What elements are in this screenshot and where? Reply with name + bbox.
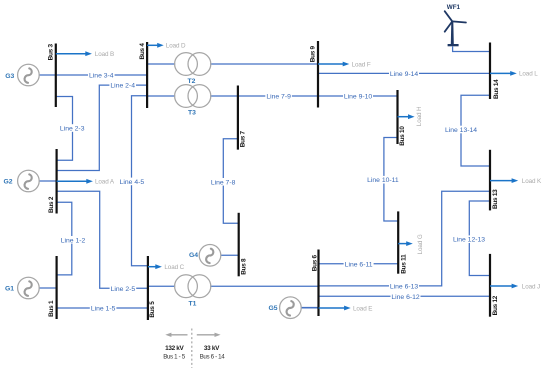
svg-text:Bus 2: Bus 2 — [48, 196, 55, 213]
wire Line 7-9 — [238, 95, 318, 97]
svg-text:Bus 7: Bus 7 — [239, 130, 246, 147]
wire Line 7-8 — [223, 139, 238, 223]
svg-text:WF1: WF1 — [447, 4, 461, 11]
load A arrow — [57, 179, 115, 186]
wire Line 4-5 — [132, 96, 148, 266]
wire WF1 to Bus 14 — [453, 47, 490, 52]
load C arrow — [148, 264, 185, 271]
wire Bus4 to T2 — [147, 63, 175, 65]
svg-text:Load C: Load C — [164, 264, 184, 271]
wire Line 1-2 — [57, 202, 72, 275]
wire Line 3-4 — [56, 74, 147, 76]
svg-text:33 kV: 33 kV — [204, 345, 220, 352]
svg-text:Load F: Load F — [352, 61, 371, 68]
svg-text:Load D: Load D — [166, 43, 186, 50]
svg-text:G5: G5 — [268, 305, 277, 312]
svg-text:Load A: Load A — [95, 179, 115, 186]
transformer T2 — [175, 53, 211, 85]
wire G2 to Bus 2 — [39, 180, 56, 182]
bus 9 — [317, 41, 319, 108]
svg-text:G3: G3 — [5, 73, 14, 80]
label Line 1-5 — [90, 304, 117, 312]
svg-text:Bus 14: Bus 14 — [493, 79, 500, 99]
label Line 2-4 — [109, 81, 136, 89]
wire G3 to Bus 3 — [39, 74, 56, 76]
wire Line 9-10 — [318, 95, 398, 97]
wire G4 to Bus 8 — [221, 254, 239, 256]
svg-text:Line 2-3: Line 2-3 — [60, 126, 85, 133]
svg-text:Line 7-9: Line 7-9 — [266, 94, 291, 101]
bus 2 — [55, 149, 57, 214]
label Line 9-14 — [389, 70, 419, 78]
svg-text:Bus 10: Bus 10 — [399, 126, 406, 146]
bus 13 — [489, 150, 491, 211]
svg-text:Line 6-12: Line 6-12 — [391, 294, 420, 301]
load H arrow — [398, 106, 424, 126]
wire Line 6-11 — [319, 263, 399, 265]
svg-text:Load J: Load J — [522, 283, 540, 290]
bus 7 — [237, 86, 239, 150]
svg-text:G1: G1 — [5, 285, 14, 292]
bus 4 — [146, 42, 148, 108]
svg-text:G2: G2 — [3, 178, 12, 185]
load B arrow — [56, 51, 114, 58]
bus 12 — [489, 254, 491, 317]
svg-text:Line 2-5: Line 2-5 — [111, 286, 136, 293]
svg-text:Bus 4: Bus 4 — [139, 43, 146, 60]
bus 10 — [396, 90, 398, 144]
wire T3 to Bus 7 — [210, 95, 238, 97]
svg-text:Bus 11: Bus 11 — [400, 254, 407, 274]
label Line 2-5 — [110, 285, 137, 293]
svg-text:Bus 13: Bus 13 — [492, 189, 499, 209]
svg-text:Line 3-4: Line 3-4 — [89, 73, 114, 80]
bus 6 — [317, 250, 319, 317]
wind turbine WF1 — [445, 11, 466, 32]
wire Line 10-11 — [384, 138, 398, 222]
svg-text:Line 6-11: Line 6-11 — [345, 261, 373, 268]
load K arrow — [490, 178, 542, 185]
svg-text:Line 9-14: Line 9-14 — [390, 71, 419, 78]
load E arrow — [319, 305, 373, 312]
svg-text:Load L: Load L — [519, 71, 538, 78]
label Line 1-2 — [60, 236, 87, 244]
wire Line 12-13 — [469, 201, 490, 276]
label Line 6-13 — [389, 282, 419, 290]
label Line 6-11 — [344, 260, 374, 268]
svg-text:Line 1-5: Line 1-5 — [91, 306, 116, 313]
wire G1 to Bus 1 — [39, 287, 56, 289]
svg-text:Bus 1 - 5: Bus 1 - 5 — [163, 354, 186, 361]
svg-text:T2: T2 — [188, 78, 196, 85]
wire G5 to Bus 6 — [301, 307, 318, 309]
load F arrow — [318, 61, 371, 68]
svg-text:T3: T3 — [188, 109, 196, 116]
bus 14 — [489, 43, 491, 100]
bus 1 — [55, 256, 57, 319]
label Line 7-9 — [265, 92, 292, 100]
svg-text:Load G: Load G — [417, 234, 424, 254]
svg-text:132 kV: 132 kV — [165, 345, 184, 352]
svg-text:Bus 3: Bus 3 — [48, 44, 55, 61]
svg-text:Load K: Load K — [522, 178, 542, 185]
generator G4 — [189, 245, 221, 267]
label Line 12-13 — [452, 235, 486, 243]
svg-text:Line 1-2: Line 1-2 — [61, 237, 86, 244]
svg-text:Bus 12: Bus 12 — [492, 295, 499, 315]
svg-text:Bus 8: Bus 8 — [240, 258, 247, 275]
svg-text:Line 9-10: Line 9-10 — [344, 94, 373, 101]
load L arrow — [490, 71, 538, 78]
wire Line 1-5 — [57, 307, 148, 309]
svg-text:Line 7-8: Line 7-8 — [211, 179, 236, 186]
label Line 6-12 — [391, 293, 421, 301]
svg-text:Bus 6 - 14: Bus 6 - 14 — [200, 354, 226, 361]
label Line 9-10 — [343, 92, 373, 100]
transformer T1 — [175, 275, 211, 307]
bus 11 — [397, 211, 399, 273]
label Line 2-3 — [59, 124, 86, 132]
load D arrow — [147, 43, 186, 50]
svg-text:Load B: Load B — [95, 51, 114, 58]
label Line 4-5 — [119, 178, 146, 186]
generator G5 — [268, 297, 301, 319]
svg-text:Bus 1: Bus 1 — [48, 300, 55, 317]
svg-text:Line 4-5: Line 4-5 — [120, 179, 145, 186]
legend divider dashed — [191, 329, 193, 369]
svg-text:Line 10-11: Line 10-11 — [367, 177, 399, 184]
wire Line 2-4 — [57, 85, 148, 170]
svg-text:Load H: Load H — [416, 106, 423, 126]
svg-text:Load E: Load E — [353, 305, 372, 312]
legend right arrow — [197, 333, 221, 337]
wire Line 2-5 — [57, 191, 148, 288]
svg-text:Line 12-13: Line 12-13 — [453, 237, 485, 244]
bus 8 — [238, 213, 240, 276]
load G arrow — [398, 234, 424, 254]
bus 5 — [147, 256, 149, 320]
wire Line 13-14 — [461, 95, 490, 166]
wire Line 9-14 — [318, 72, 490, 74]
wire Bus5 to T1 — [148, 285, 175, 287]
label Line 3-4 — [88, 71, 115, 79]
wire Line 2-3 — [56, 97, 73, 161]
label Line 13-14 — [444, 126, 478, 134]
bus 3 — [55, 44, 57, 108]
transformer T3 — [175, 85, 211, 117]
svg-text:G4: G4 — [189, 252, 198, 259]
generator G3 — [5, 64, 39, 86]
svg-text:Bus 6: Bus 6 — [311, 254, 318, 271]
label Line 7-8 — [210, 178, 237, 186]
generator G2 — [3, 170, 39, 192]
svg-text:Line 13-14: Line 13-14 — [445, 127, 477, 134]
svg-text:T1: T1 — [189, 300, 197, 307]
generator G1 — [5, 277, 39, 299]
svg-text:Line 2-4: Line 2-4 — [110, 83, 135, 90]
svg-text:Bus 5: Bus 5 — [149, 301, 156, 318]
svg-text:Line 6-13: Line 6-13 — [390, 283, 419, 290]
legend left arrow — [165, 333, 187, 337]
wire Bus4 to T3 — [147, 95, 175, 97]
wire Line 6-13 — [319, 191, 491, 286]
wire T2 to Bus 9 — [210, 63, 318, 65]
label Line 10-11 — [366, 176, 400, 184]
load J arrow — [490, 283, 540, 290]
svg-text:Bus 9: Bus 9 — [310, 45, 317, 62]
wire T1 to Bus 6 — [210, 285, 318, 287]
wire Line 6-12 — [319, 295, 491, 297]
